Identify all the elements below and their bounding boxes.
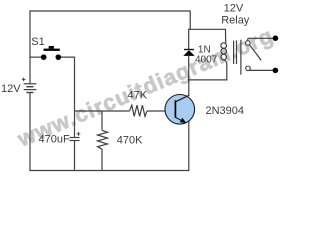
battery plus sign	[22, 78, 26, 82]
wire 470K branch upper	[101, 111, 103, 130]
relay contact NO circle	[246, 66, 251, 71]
relay coil loop 1	[221, 43, 227, 49]
svg-text:12V: 12V	[1, 83, 21, 95]
capacitor C1 top plate	[70, 137, 80, 139]
wire capacitor branch lower	[74, 141, 76, 171]
transistor Q1 base bar	[174, 100, 176, 118]
svg-text:470uF: 470uF	[39, 133, 70, 145]
relay coil loop 2	[221, 49, 227, 55]
transistor Q1 emitter arrow	[180, 118, 186, 123]
wire left rail lower	[29, 93, 31, 171]
relay coil loop 3	[221, 54, 227, 60]
relay switch arm	[249, 45, 261, 61]
relay armature bar	[240, 40, 242, 75]
relay core line 1	[233, 41, 235, 65]
wire 47K to transistor base	[147, 110, 165, 112]
node terminal dot bottom	[273, 68, 279, 74]
svg-text:S1: S1	[31, 36, 44, 48]
wire bottom rail	[30, 170, 190, 172]
relay contact common stub	[247, 38, 249, 40]
wire S1 branch left	[30, 56, 42, 58]
relay core line 2	[236, 41, 238, 65]
wire top rail	[30, 10, 190, 12]
wire relay bottom terminal	[249, 69, 273, 71]
wire relay top terminal	[248, 37, 273, 39]
battery B1 plate long	[24, 89, 37, 91]
svg-text:2N3904: 2N3904	[206, 105, 245, 117]
battery B1 plate short	[26, 86, 33, 88]
svg-text:4007: 4007	[195, 54, 218, 65]
svg-text:12V: 12V	[224, 3, 244, 15]
switch S1 button bar	[44, 49, 60, 51]
relay contact common circle	[246, 41, 251, 46]
wire coil top branch	[188, 29, 226, 43]
wire rail to diode	[188, 29, 190, 49]
switch S1 contact dot left	[41, 54, 47, 60]
wire S1 branch right, down to base node	[60, 57, 75, 111]
battery B1 plate long top	[24, 83, 37, 85]
svg-text:Relay: Relay	[221, 14, 250, 26]
wire left rail upper	[29, 10, 31, 83]
battery B1 plate short bottom	[26, 92, 33, 94]
wire capacitor branch upper	[74, 111, 76, 137]
node terminal dot top	[273, 35, 279, 41]
switch S1 button knob	[49, 46, 54, 49]
svg-text:47K: 47K	[128, 90, 148, 102]
wire collector	[188, 80, 190, 96]
resistor R1 47K zigzag	[130, 105, 148, 116]
wire coil bottom branch	[188, 60, 227, 80]
svg-text:470K: 470K	[117, 134, 143, 146]
wire diode to bottom branch	[188, 56, 190, 80]
capacitor plus sign	[77, 132, 81, 136]
resistor R2 470K zigzag	[98, 130, 108, 149]
diode D1 triangle	[183, 50, 194, 56]
wire 470K branch lower	[101, 149, 103, 170]
transistor Q1 collector lead	[176, 95, 189, 101]
wire base line to 47K	[75, 110, 130, 112]
transistor Q1 emitter lead	[176, 117, 186, 122]
diode D1 cathode bar	[184, 49, 194, 51]
transistor Q1 body	[165, 95, 195, 125]
wire right rail top segment	[189, 11, 191, 30]
switch S1 contact dot right	[56, 54, 62, 60]
capacitor C1 bottom plate	[70, 140, 80, 142]
wire emitter down	[188, 120, 190, 171]
